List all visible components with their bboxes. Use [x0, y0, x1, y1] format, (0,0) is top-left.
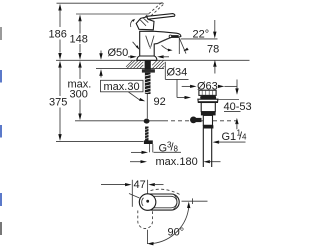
svg-text:8: 8: [174, 145, 179, 154]
svg-text:Ø50: Ø50: [108, 47, 129, 59]
svg-text:Ø34: Ø34: [167, 67, 188, 79]
svg-text:40-53: 40-53: [224, 101, 252, 113]
svg-text:4: 4: [242, 133, 247, 142]
svg-text:92: 92: [154, 96, 166, 108]
svg-text:375: 375: [49, 97, 67, 109]
svg-text:300: 300: [70, 89, 88, 101]
svg-text:G1: G1: [222, 131, 237, 143]
svg-text:max.180: max.180: [156, 156, 198, 168]
svg-text:22°: 22°: [193, 29, 210, 41]
svg-text:G: G: [159, 143, 168, 155]
svg-text:max.30: max.30: [104, 81, 140, 93]
svg-text:148: 148: [70, 34, 88, 46]
svg-text:78: 78: [207, 44, 219, 56]
svg-text:47: 47: [134, 179, 146, 191]
svg-text:186: 186: [49, 29, 67, 41]
